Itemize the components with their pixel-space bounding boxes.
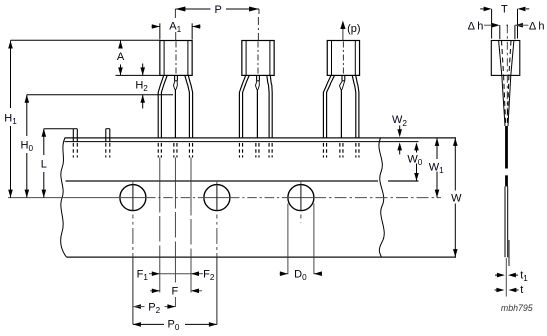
- node transistor 2 centerline above body: [258, 9, 260, 14]
- svg-text:P: P: [215, 4, 222, 16]
- dimension P2: [133, 304, 141, 309]
- dimension W2: [399, 126, 401, 132]
- dimension t: [495, 289, 497, 291]
- feed direction arrow (p): [342, 27, 344, 41]
- side view centerline: [506, 25, 508, 122]
- node hole 3 centerline: [300, 182, 302, 185]
- dimension W: [454, 138, 456, 191]
- wire tape inner line (adhesive bottom): [66, 180, 379, 182]
- node T1 center lead axis: [174, 158, 176, 209]
- wire L reference line (stub top): [44, 128, 73, 130]
- dimension A: [120, 41, 122, 48]
- sprocket hole 3: [288, 185, 314, 211]
- node hole 1 centerline: [132, 182, 134, 185]
- dimension A1 arrows: [152, 26, 160, 28]
- side view converging leads: [502, 75, 505, 126]
- wire kink reference line (H0/H2 top): [27, 94, 173, 96]
- svg-text:T: T: [501, 4, 508, 16]
- dimension H0: [26, 95, 28, 136]
- sprocket hole 2: [204, 185, 230, 211]
- wire body-bottom extension line for A/H2: [116, 74, 160, 76]
- svg-text:(p): (p): [347, 23, 360, 35]
- dimension P0: [133, 322, 141, 327]
- wire tape bottom edge: [67, 256, 457, 258]
- dimension T: [480, 8, 483, 10]
- cut lead stub 1: [72, 129, 74, 142]
- dimension F: [150, 290, 160, 292]
- svg-text:Δ h: Δ h: [468, 20, 484, 32]
- svg-text:mbh795: mbh795: [501, 303, 533, 313]
- wire tape top edge: [65, 137, 457, 139]
- dimension W0: [414, 142, 419, 150]
- wire sprocket hole centerline (horizontal): [8, 197, 146, 199]
- node transistor 1 centerline above body: [174, 9, 176, 18]
- svg-text:F: F: [172, 286, 179, 298]
- dimension t1: [495, 274, 497, 276]
- wire tape right break (wavy): [379, 138, 384, 257]
- dimension delta-h arrows: [484, 24, 492, 26]
- transistor 3 (TO-92 front view): [327, 41, 359, 76]
- cut lead stub 2: [105, 129, 107, 142]
- dimension L: [43, 129, 45, 155]
- svg-text:L: L: [41, 159, 47, 171]
- side view tape center below: [505, 258, 507, 297]
- sprocket hole 1: [120, 185, 146, 211]
- transistor 2 (TO-92 front view): [242, 41, 274, 76]
- side view body lead lines: [499, 41, 502, 76]
- dimension D0: [280, 273, 288, 275]
- node T1 right lead axis: [190, 158, 192, 216]
- dimension P: [175, 8, 210, 10]
- svg-text:A: A: [117, 51, 125, 63]
- wire H1 top reference line (transistor top): [11, 39, 160, 41]
- side view body: [491, 41, 520, 76]
- dimension A1 extension lines: [159, 23, 161, 39]
- dimension W1: [436, 138, 438, 159]
- wire tape left break (wavy): [61, 138, 67, 257]
- node D0 extension lines: [287, 204, 289, 275]
- node T1 left lead axis: [159, 158, 161, 213]
- transistor 1 (TO-92 front view): [160, 41, 192, 76]
- side view lead pair: [504, 186, 506, 257]
- dimension H1: [10, 41, 12, 109]
- node hole 2 centerline: [216, 182, 218, 185]
- wire adhesive tape top edge: [65, 141, 419, 143]
- svg-text:W: W: [451, 192, 462, 204]
- dimension F1-F2 line: [149, 273, 160, 275]
- svg-text:t: t: [520, 284, 523, 296]
- side view lead stack (thick): [505, 126, 508, 169]
- dimension H2: [142, 64, 144, 76]
- svg-text:Δ h: Δ h: [529, 20, 545, 32]
